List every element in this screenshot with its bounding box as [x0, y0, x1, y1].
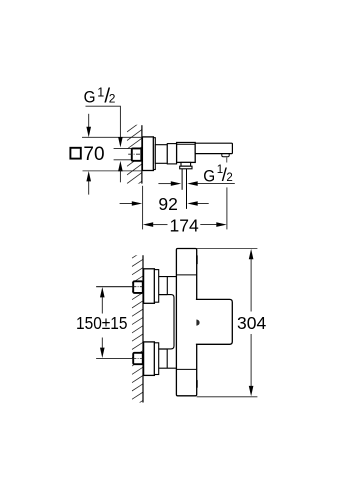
dim 150 top arrow	[100, 287, 105, 297]
dim 304 extension lines	[197, 247, 258, 249]
body (front view)	[176, 249, 196, 396]
arrow up (pipe bottom) with stem	[118, 161, 123, 171]
in-wall connector square	[132, 148, 142, 160]
dim 70 extension lines	[82, 136, 142, 138]
valve body (side view)	[177, 143, 196, 163]
top escutcheon (front)	[144, 269, 155, 304]
top wall nut	[133, 281, 143, 293]
bottom escutcheon (front)	[144, 342, 155, 376]
escutcheon (side view)	[142, 137, 153, 171]
bottom supply centerline	[96, 357, 133, 359]
escutcheon ring (side view)	[153, 138, 155, 170]
svg-text:92: 92	[158, 194, 177, 214]
bottom shaft top line	[159, 348, 168, 350]
dim 150 extension lines	[96, 286, 134, 288]
wall hatch (side view, top drawing)	[127, 121, 142, 209]
top supply centerline	[96, 286, 133, 288]
bottom union step	[166, 349, 168, 368]
G1/2 outlet callout arrows	[158, 183, 171, 185]
logo mark	[196, 320, 199, 326]
wall face line (top drawing)	[141, 125, 143, 183]
top shaft bottom line	[159, 294, 168, 296]
bottom escutcheon ring	[154, 343, 158, 375]
svg-text:1: 1	[97, 85, 104, 99]
dim 304 line + arrows	[249, 249, 254, 259]
top shaft top line	[159, 276, 177, 278]
bottom handle joint	[176, 368, 196, 370]
bottom nut centerline dashes	[133, 357, 143, 359]
aerator	[222, 154, 229, 157]
leader G1/2 top	[86, 106, 121, 138]
top nut centerline dashes	[133, 286, 143, 288]
spout plate (front view)	[196, 299, 232, 344]
top escutcheon ring	[154, 270, 158, 303]
svg-text:70: 70	[83, 144, 104, 165]
outlet neck	[181, 162, 191, 166]
svg-text:2: 2	[109, 92, 116, 106]
svg-text:G: G	[203, 166, 215, 185]
dim 174	[143, 222, 153, 227]
dim 150 bottom arrow	[100, 348, 105, 358]
outlet flange	[180, 166, 192, 169]
dim 174 extension lines	[142, 186, 144, 230]
wall hatch (front view, bottom drawing)	[132, 251, 143, 416]
cartridge shaft (side view)	[155, 145, 167, 164]
spout (side view)	[195, 143, 232, 153]
shaft collar (side view)	[167, 144, 176, 164]
supply pipe in wall (top drawing)	[114, 148, 133, 150]
svg-text:150±15: 150±15	[76, 313, 128, 333]
dim 70 top arrow	[88, 114, 90, 128]
wall face line (front view)	[142, 255, 144, 402]
top handle button	[196, 255, 198, 264]
union block (between connections)	[159, 295, 174, 349]
dim 92	[120, 203, 133, 205]
top handle joint	[176, 274, 196, 276]
hose nipple lines	[181, 169, 183, 190]
square symbol	[70, 148, 80, 159]
supply pipe bore (white)	[114, 149, 132, 159]
svg-text:G: G	[84, 88, 96, 107]
valve body top seam	[177, 143, 196, 145]
svg-text:304: 304	[237, 313, 266, 333]
dim 70 bottom arrow	[86, 171, 91, 181]
aerator centerline tick	[226, 157, 228, 162]
bottom shaft bottom line	[159, 367, 177, 369]
bottom wall nut	[133, 353, 143, 364]
top union step	[166, 277, 168, 295]
svg-text:2: 2	[226, 172, 232, 184]
svg-text:174: 174	[170, 215, 199, 235]
bottom handle button	[196, 380, 198, 388]
pipe centerline (dash-dot)	[128, 153, 141, 155]
leader arrow down (pipe top)	[118, 137, 123, 147]
